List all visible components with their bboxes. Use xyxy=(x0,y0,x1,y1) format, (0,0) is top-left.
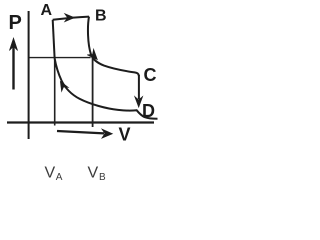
wire D to A lower curve xyxy=(55,58,158,119)
svg-text:P: P xyxy=(9,12,22,34)
svg-text:C: C xyxy=(144,65,157,85)
V axis arrow xyxy=(57,129,113,138)
wire B to C curve xyxy=(88,17,139,76)
horizontal reference line xyxy=(30,57,91,59)
wire A to B top xyxy=(53,17,89,20)
svg-text:B: B xyxy=(95,8,107,25)
V_A reference line xyxy=(54,58,56,126)
P axis arrow xyxy=(9,38,17,90)
arrow on D to A curve xyxy=(60,81,68,91)
arrow C to D xyxy=(135,96,143,107)
V_B reference line xyxy=(92,56,94,127)
arrow A to B xyxy=(65,14,75,22)
wire C to D drop xyxy=(138,75,140,99)
svg-text:A: A xyxy=(41,2,53,19)
P axis xyxy=(28,11,30,139)
V axis xyxy=(7,121,154,123)
wire D to A left side xyxy=(53,20,55,58)
arrow B to C at knee xyxy=(87,49,97,59)
svg-text:B: B xyxy=(99,172,106,183)
svg-text:A: A xyxy=(56,172,63,183)
svg-text:V: V xyxy=(88,165,99,182)
svg-text:V: V xyxy=(119,125,131,145)
svg-text:V: V xyxy=(45,165,56,182)
